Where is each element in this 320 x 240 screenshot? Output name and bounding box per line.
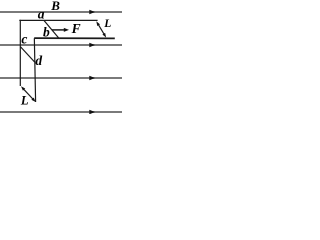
- svg-text:b: b: [43, 24, 50, 39]
- field line B3 arrowhead: [89, 76, 95, 81]
- svg-text:L: L: [20, 94, 29, 108]
- field line B4 arrowhead: [89, 110, 95, 115]
- svg-text:F: F: [71, 21, 81, 36]
- field line B3: [0, 77, 122, 79]
- force F arrow: [52, 29, 65, 31]
- field line B2 arrowhead: [89, 43, 95, 48]
- background: [0, 0, 122, 114]
- field line B1 arrowhead: [89, 10, 95, 15]
- wire mid diagonal c-d: [21, 47, 35, 62]
- wire left vertical: [19, 20, 21, 86]
- svg-text:a: a: [38, 7, 45, 22]
- field line B2: [0, 44, 122, 46]
- wire right near-vertical (d side): [34, 38, 35, 102]
- dimension arrow L top-right: [96, 21, 106, 37]
- wire top rail: [19, 19, 97, 21]
- rod a-b: [44, 20, 59, 38]
- wire bottom rail: [34, 37, 115, 39]
- dimension arrow L bottom-left: [21, 86, 36, 102]
- svg-text:B: B: [50, 0, 60, 13]
- field line B4: [0, 111, 122, 113]
- svg-text:c: c: [21, 31, 27, 46]
- field line B1: [0, 11, 122, 13]
- svg-text:d: d: [35, 53, 42, 68]
- svg-text:L: L: [103, 18, 111, 30]
